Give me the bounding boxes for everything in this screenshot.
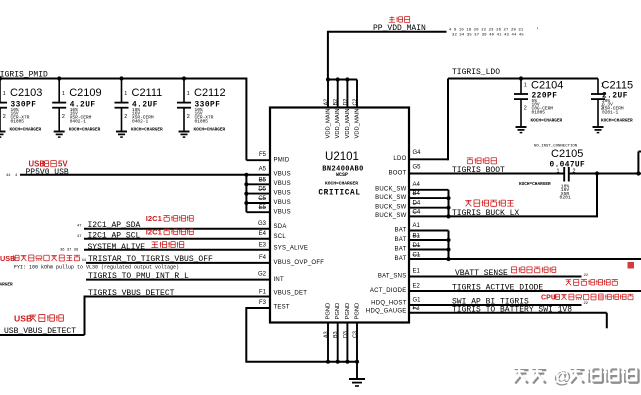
svg-text:BAT: BAT bbox=[395, 256, 407, 262]
svg-text:C5: C5 bbox=[258, 196, 266, 202]
svg-text:47: 47 bbox=[77, 225, 82, 229]
svg-text:BAT: BAT bbox=[395, 237, 407, 243]
wire TIGRIS_TO_BATTERY_SWI_1V8 from pin F2 bbox=[408, 312, 607, 314]
svg-text:22: 22 bbox=[584, 302, 589, 306]
svg-text:BAT_SNS: BAT_SNS bbox=[378, 273, 407, 279]
svg-text:E1: E1 bbox=[413, 269, 421, 275]
junction dots on BAT bus bbox=[446, 238, 450, 242]
junction dot TIGRIS_BOOT branch bbox=[595, 171, 599, 175]
wire BUCK_SW bus vertical bbox=[448, 190, 450, 217]
svg-text:A5: A5 bbox=[259, 167, 267, 173]
wire TRISTAR_TO_TIGRIS_VBUS_OFF to pin F4 bbox=[86, 262, 271, 264]
annotation 充电管驱动信号 (red) bbox=[566, 280, 572, 286]
annotation 充电降压输出 (red) bbox=[465, 200, 471, 206]
svg-text:F4: F4 bbox=[259, 255, 267, 261]
svg-text:BUCK_SW: BUCK_SW bbox=[375, 195, 407, 201]
wire I2C1_AP_SCL to pin E4 bbox=[84, 238, 271, 240]
svg-text:I2C1: I2C1 bbox=[146, 214, 163, 223]
wire VBATT_SENSE from pin E1 bbox=[408, 276, 582, 278]
svg-text:VDD_MAIN: VDD_MAIN bbox=[345, 109, 351, 139]
svg-text:U2101: U2101 bbox=[325, 151, 359, 163]
svg-text:VBUS: VBUS bbox=[274, 200, 291, 206]
annotation 启动供电 (red) bbox=[467, 158, 473, 164]
watermark 头条@迅维快修 (embossed gray/white) bbox=[515, 370, 529, 383]
svg-text:B1: B1 bbox=[413, 233, 421, 239]
svg-text:G5: G5 bbox=[413, 165, 422, 171]
svg-text:C4: C4 bbox=[413, 209, 421, 215]
wire pin F3 TEST stub bbox=[246, 307, 271, 309]
svg-text:D5: D5 bbox=[258, 187, 266, 193]
wire TIGRIS_BOOT branch down to TIGRIS_BUCK_LX bbox=[596, 174, 598, 218]
capacitor C2103 (330PF, partially cut at left edge) bbox=[0, 79, 1, 103]
wire TIGRIS_PMID down to pin F5 bbox=[245, 78, 247, 161]
svg-text:SYS_ALIVE: SYS_ALIVE bbox=[274, 245, 309, 251]
svg-text:F5: F5 bbox=[259, 152, 267, 158]
svg-text:KOCH=CHARGER: KOCH=CHARGER bbox=[531, 119, 563, 124]
capacitor C2112 330PF bbox=[183, 79, 185, 103]
svg-text:KOCH=CHARGER: KOCH=CHARGER bbox=[194, 128, 226, 133]
svg-text:PGND: PGND bbox=[326, 303, 332, 320]
wires VDD_MAIN pin stubs into IC top bbox=[327, 80, 329, 109]
wire TIGRIS_LDO horizontal rail bbox=[448, 78, 598, 80]
annotation 电池电压检测 (red) bbox=[511, 267, 516, 273]
wire TIGRIS_BUCK_LX from pin C4 to riser bbox=[408, 215, 597, 217]
svg-text:C3: C3 bbox=[353, 331, 359, 338]
wire BAT rail to right edge bbox=[408, 258, 641, 260]
svg-text:CPU: CPU bbox=[541, 294, 556, 302]
svg-text:0.047UF: 0.047UF bbox=[550, 162, 586, 170]
svg-text:BAT: BAT bbox=[395, 246, 407, 252]
svg-text:KOCH=CHARGER: KOCH=CHARGER bbox=[10, 128, 42, 133]
svg-text:01005: 01005 bbox=[11, 119, 25, 125]
svg-text:KOCH=CHARGER: KOCH=CHARGER bbox=[69, 128, 101, 133]
svg-text:KOCH=CHARGER: KOCH=CHARGER bbox=[0, 283, 13, 288]
svg-text:1: 1 bbox=[62, 91, 65, 97]
svg-text:VBUS: VBUS bbox=[274, 209, 291, 215]
svg-text:C2112: C2112 bbox=[194, 87, 226, 99]
svg-text:PGND: PGND bbox=[345, 303, 351, 320]
svg-text:D3: D3 bbox=[343, 331, 349, 338]
svg-text:CRITICAL: CRITICAL bbox=[318, 190, 360, 198]
ground symbol below PGND rail bbox=[356, 362, 358, 379]
wire TIGRIS_TO_BATTERY_SWI_1V8 down stub bbox=[606, 313, 608, 329]
wire TIGRIS_BOOT from C2105 to right edge bbox=[569, 173, 641, 175]
svg-text:1: 1 bbox=[3, 91, 6, 97]
svg-text:D1: D1 bbox=[413, 243, 421, 249]
annotation 主供电 (red) bbox=[389, 16, 395, 22]
svg-text:D2: D2 bbox=[343, 99, 349, 106]
wire SWI_AP_BI_TIGRIS from pin G1 bbox=[408, 304, 582, 306]
svg-text:C1: C1 bbox=[413, 252, 421, 258]
wire I2C1_AP_SDA to pin G3 bbox=[84, 228, 271, 230]
svg-text:2: 2 bbox=[524, 106, 527, 112]
op-amp U2101 IC body outline bbox=[270, 108, 409, 323]
svg-text:2: 2 bbox=[187, 114, 190, 120]
wire VBUS bus vertical bbox=[245, 175, 247, 212]
svg-text:A1: A1 bbox=[413, 223, 421, 229]
svg-text:C2109: C2109 bbox=[69, 87, 101, 99]
svg-text:1: 1 bbox=[187, 91, 190, 97]
svg-text:C2: C2 bbox=[353, 99, 359, 106]
svg-text:USB: USB bbox=[14, 313, 32, 323]
svg-text:KOCH=CHARGER: KOCH=CHARGER bbox=[601, 119, 633, 124]
wire PP5V0_USB to pin A5 bbox=[20, 174, 271, 176]
svg-text:KOCH=CHARGER: KOCH=CHARGER bbox=[519, 182, 551, 187]
svg-text:E5: E5 bbox=[259, 205, 267, 211]
svg-text:01005: 01005 bbox=[195, 119, 209, 125]
svg-text:D4: D4 bbox=[413, 201, 421, 207]
wire SYSTEM_ALIVE to pin E3 bbox=[84, 249, 271, 251]
wire TIGRIS_ACTIVE_DIODE from pin E2 to right edge bbox=[408, 290, 641, 292]
svg-text:BOOT: BOOT bbox=[388, 171, 406, 177]
wires BUCK_SW pin stubs bbox=[408, 189, 449, 191]
svg-text:1: 1 bbox=[124, 91, 127, 97]
svg-text:B3: B3 bbox=[333, 331, 339, 338]
svg-text:C2115: C2115 bbox=[602, 80, 634, 92]
small red watermark fragment at right edge bbox=[628, 262, 635, 269]
svg-text:BAT: BAT bbox=[395, 227, 407, 233]
wire TEST loop left and bottom bbox=[246, 307, 357, 362]
capacitor C2104 220PF bbox=[520, 79, 522, 95]
svg-text:1: 1 bbox=[557, 168, 560, 174]
svg-text:B4: B4 bbox=[413, 191, 421, 197]
svg-text:PGND: PGND bbox=[355, 303, 361, 320]
svg-text:PGND: PGND bbox=[335, 303, 341, 320]
svg-text:2: 2 bbox=[3, 114, 6, 120]
svg-text:F1: F1 bbox=[259, 289, 267, 295]
wire PP_VDD_MAIN horizontal bbox=[328, 31, 447, 33]
svg-text:I2C1: I2C1 bbox=[146, 228, 163, 237]
svg-text:A4: A4 bbox=[413, 182, 421, 188]
svg-text:2: 2 bbox=[62, 114, 65, 120]
svg-text:SDA: SDA bbox=[274, 224, 287, 230]
svg-text:2: 2 bbox=[124, 114, 127, 120]
annotation 系统激活 (red) bbox=[151, 242, 158, 248]
wire BAT bus vertical bbox=[448, 231, 450, 260]
capacitor C2109 4.2UF bbox=[58, 79, 60, 103]
svg-text:4 9 10 18 20 22 23 26 27 29 31: 4 9 10 18 20 22 23 26 27 29 31 bbox=[449, 28, 524, 32]
svg-text:HDQ_HOST: HDQ_HOST bbox=[371, 301, 406, 307]
svg-text:BUCK_SW: BUCK_SW bbox=[375, 205, 407, 211]
wire TIGRIS_BOOT from pin G5 to C2105 bbox=[408, 173, 564, 175]
svg-text:VBUS: VBUS bbox=[274, 172, 291, 178]
junction dots on TIGRIS_PMID rail bbox=[57, 76, 61, 80]
svg-text:A2: A2 bbox=[324, 99, 330, 106]
svg-text:FYI: 100 kOhm pullup to VL30 (: FYI: 100 kOhm pullup to VL30 (regulated … bbox=[14, 265, 179, 271]
svg-text:0201: 0201 bbox=[560, 195, 571, 201]
svg-text:USB: USB bbox=[0, 254, 15, 263]
svg-text:1: 1 bbox=[524, 83, 527, 89]
svg-text:0402-1: 0402-1 bbox=[70, 119, 87, 125]
svg-text:G2: G2 bbox=[258, 272, 267, 278]
svg-text:PMID: PMID bbox=[274, 158, 290, 164]
svg-text:01005: 01005 bbox=[532, 110, 546, 116]
svg-text:E2: E2 bbox=[413, 284, 421, 290]
svg-text:B5: B5 bbox=[259, 177, 267, 183]
svg-text:HDQ_GAUGE: HDQ_GAUGE bbox=[366, 308, 407, 314]
wire USB_VBUS_DETECT vertical riser bbox=[84, 296, 86, 336]
svg-text:SCL: SCL bbox=[274, 234, 287, 240]
svg-text:VBUS: VBUS bbox=[274, 191, 291, 197]
svg-text:INT: INT bbox=[274, 277, 285, 283]
svg-text:47: 47 bbox=[77, 235, 82, 239]
junction dot TIGRIS_LDO at C2104 bbox=[519, 76, 523, 80]
wire TIGRIS_VBUS_DETECT to pin F1 bbox=[85, 296, 272, 298]
svg-text:G4: G4 bbox=[413, 150, 422, 156]
svg-text:G3: G3 bbox=[258, 221, 267, 227]
wire TIGRIS_BOOT right edge stub up bbox=[636, 171, 640, 175]
svg-text:C2104: C2104 bbox=[531, 80, 563, 92]
junction dots on BUCK_SW bus bbox=[446, 196, 450, 200]
svg-text:VBUS_DET: VBUS_DET bbox=[274, 290, 308, 296]
junction dots on VDD_MAIN connector bbox=[326, 77, 330, 81]
svg-text:B2: B2 bbox=[333, 99, 339, 106]
svg-text:32 34 35 37 39 40 41 43 44 45: 32 34 35 37 39 40 41 43 44 45 bbox=[452, 33, 524, 37]
svg-text:44: 44 bbox=[6, 174, 11, 178]
wire TIGRIS_TO_PMU_INT_R_L to pin G2 bbox=[86, 279, 271, 281]
svg-text:C2111: C2111 bbox=[132, 87, 163, 99]
svg-text:LDO: LDO bbox=[393, 156, 406, 162]
svg-text:G1: G1 bbox=[413, 297, 422, 303]
junction dots on PGND rail bbox=[326, 360, 330, 364]
wires PGND pin stubs bbox=[327, 322, 329, 362]
svg-text:@: @ bbox=[547, 365, 569, 385]
svg-text:C2105: C2105 bbox=[551, 148, 583, 160]
svg-text:TEST: TEST bbox=[274, 305, 290, 311]
svg-text:VDD_MAIN: VDD_MAIN bbox=[355, 109, 361, 139]
svg-text:VBUS: VBUS bbox=[274, 181, 291, 187]
svg-text:A3: A3 bbox=[324, 331, 330, 338]
capacitor C2111 4.2UF bbox=[121, 79, 123, 103]
svg-text:C2103: C2103 bbox=[10, 87, 42, 99]
wire VDD_MAIN top connector bbox=[328, 79, 357, 81]
svg-text:F3: F3 bbox=[259, 300, 267, 306]
wire USB_VBUS_DETECT horizontal bbox=[0, 334, 85, 336]
svg-text:0402-1: 0402-1 bbox=[132, 119, 149, 125]
svg-text:F2: F2 bbox=[413, 306, 421, 312]
svg-text:E4: E4 bbox=[259, 231, 267, 237]
svg-text:WCSP: WCSP bbox=[336, 172, 348, 178]
svg-text:ACT_DIODE: ACT_DIODE bbox=[370, 288, 407, 294]
svg-text:2: 2 bbox=[573, 168, 576, 174]
svg-text:VDD_MAIN: VDD_MAIN bbox=[335, 109, 341, 139]
svg-text:KOCH=CHARGER: KOCH=CHARGER bbox=[131, 128, 163, 133]
svg-text:22: 22 bbox=[584, 274, 589, 278]
svg-text:BUCK_SW: BUCK_SW bbox=[375, 213, 407, 219]
wire pin G4 LDO up to TIGRIS_LDO rail bbox=[408, 158, 448, 160]
svg-text:44: 44 bbox=[82, 259, 87, 263]
svg-text:’: ’ bbox=[536, 28, 539, 34]
junction dots on VBUS bus bbox=[244, 173, 248, 177]
svg-text:VDD_MAIN: VDD_MAIN bbox=[326, 109, 332, 139]
wires VBUS pin stubs B5 D5 C5 E5 bbox=[246, 183, 271, 185]
svg-text:VBUS_OVP_OFF: VBUS_OVP_OFF bbox=[274, 260, 325, 266]
svg-text:E3: E3 bbox=[259, 242, 267, 248]
wire PP_VDD_MAIN vertical feed bbox=[327, 31, 329, 80]
wire TIGRIS_PMID horizontal rail bbox=[0, 78, 246, 80]
svg-text:36 37 38: 36 37 38 bbox=[60, 249, 79, 253]
capacitor C2115 2.2UF bbox=[597, 79, 599, 95]
wires BAT pin stubs bbox=[408, 230, 449, 232]
svg-text:KOCH=CHARGER: KOCH=CHARGER bbox=[325, 180, 358, 186]
svg-text:0201-1: 0201-1 bbox=[602, 110, 619, 116]
svg-text:TIGRIS_LDO: TIGRIS_LDO bbox=[452, 68, 500, 77]
svg-text:BUCK_SW: BUCK_SW bbox=[375, 187, 407, 193]
